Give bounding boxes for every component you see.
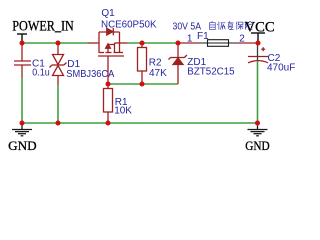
ground right — [248, 123, 268, 136]
svg-text:GND: GND — [245, 139, 270, 153]
svg-text:Q1: Q1 — [101, 8, 115, 19]
hui — [218, 22, 220, 30]
wire gate rail — [108, 83, 178, 85]
fuse F1 — [178, 42, 258, 44]
junction R2 bottom — [139, 81, 144, 86]
fu — [229, 21, 230, 23]
wire bottom ground rail — [22, 122, 258, 124]
svg-text:VCC: VCC — [245, 19, 275, 35]
capacitor C2 polarized — [248, 47, 268, 63]
svg-text:1: 1 — [187, 33, 193, 44]
wire C1 lower — [21, 78, 23, 123]
junction at POWER_IN — [19, 40, 24, 45]
zener diode ZD1 — [169, 43, 187, 84]
svg-text:470uF: 470uF — [267, 62, 295, 73]
junction gate R1 — [105, 81, 110, 86]
svg-text:NCE60P50K: NCE60P50K — [101, 19, 157, 30]
junction C2 bottom — [255, 120, 260, 125]
junction ZD1 top — [175, 40, 180, 45]
TVS diode D1 — [50, 43, 67, 85]
junction R1 bottom — [105, 120, 110, 125]
value CJK self-recovery fuse glyphs — [210, 21, 253, 29]
junction D1 top — [55, 40, 60, 45]
wire D1 lower — [57, 85, 59, 123]
svg-text:POWER_IN: POWER_IN — [12, 19, 74, 35]
transistor Q1 (P-MOSFET) — [88, 28, 128, 84]
svg-text:30V 5A: 30V 5A — [173, 21, 202, 32]
svg-text:BZT52C15: BZT52C15 — [187, 67, 235, 78]
xian — [244, 22, 246, 30]
svg-text:F1: F1 — [197, 31, 209, 42]
node VCC port — [251, 33, 265, 43]
junction C1 bottom — [19, 120, 24, 125]
ground left — [12, 123, 32, 136]
zi — [210, 21, 213, 22]
svg-text:0.1u: 0.1u — [32, 67, 50, 78]
bao — [235, 22, 238, 24]
node POWER_IN port — [17, 34, 27, 43]
junction VCC — [255, 40, 260, 45]
resistor R1 — [104, 84, 113, 123]
wire top rail left (POWER_IN to Q1) — [22, 42, 88, 44]
svg-text:47K: 47K — [149, 68, 167, 79]
wire top rail right of Q1 — [128, 42, 179, 44]
junction R2 top — [139, 40, 144, 45]
wire C2 lower — [257, 62, 259, 124]
svg-text:GND: GND — [8, 139, 37, 153]
svg-text:D1: D1 — [67, 59, 80, 70]
junction D1 bottom — [55, 120, 60, 125]
svg-text:10K: 10K — [114, 106, 132, 117]
resistor R2 — [138, 43, 147, 84]
capacitor C1 — [14, 43, 31, 78]
